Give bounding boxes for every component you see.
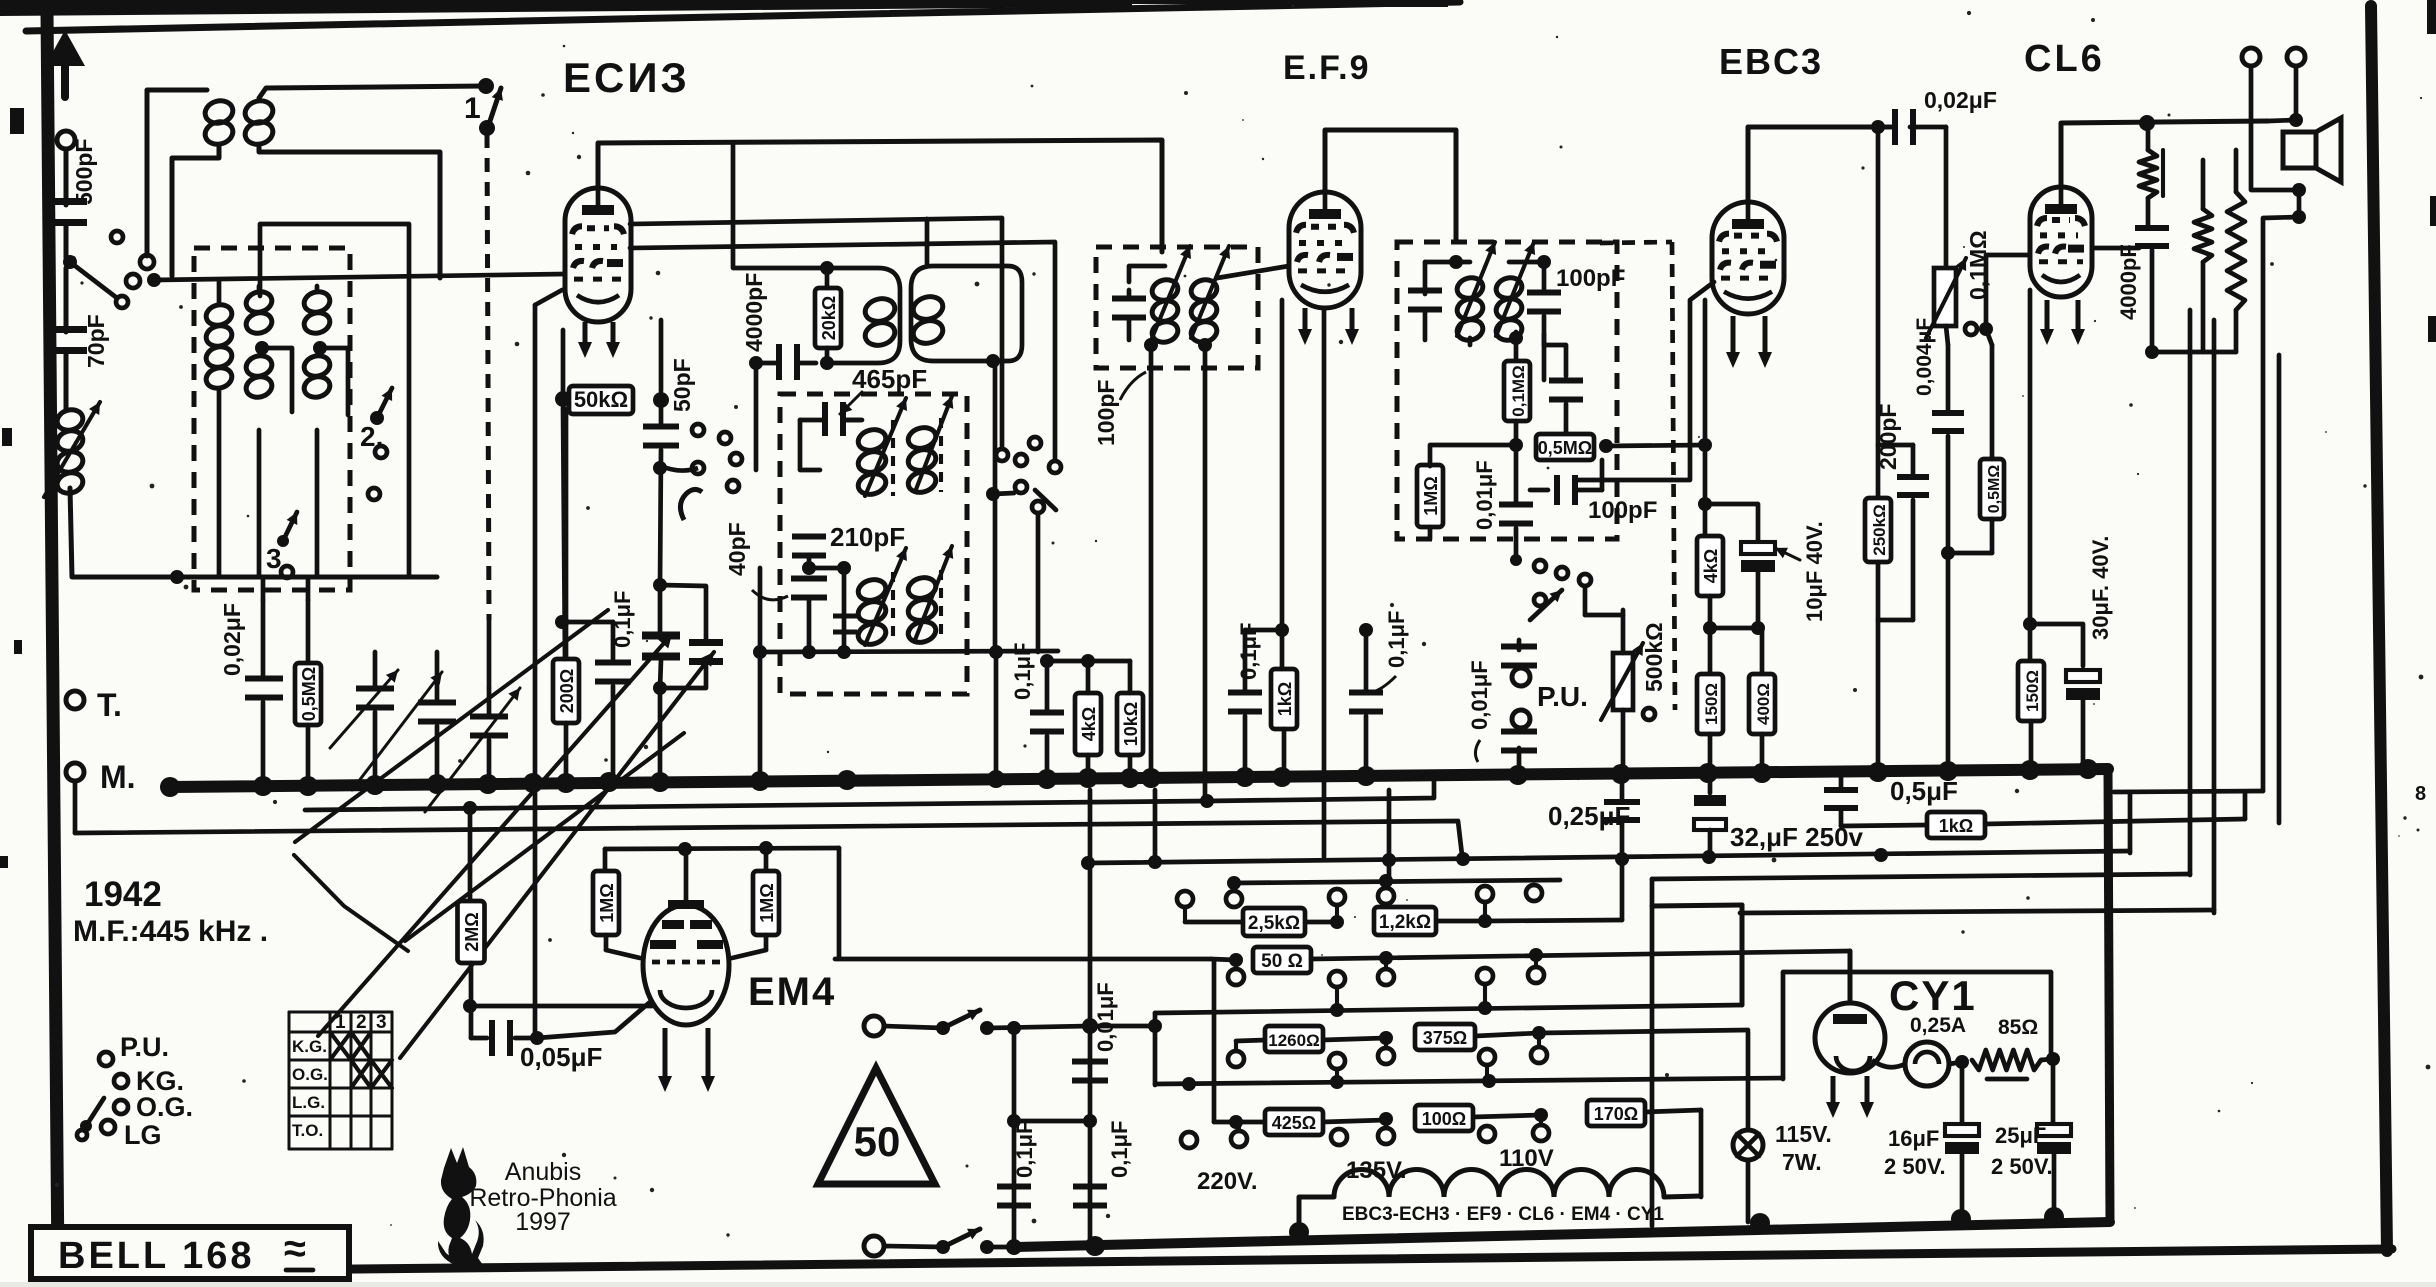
- wire W1: [1081, 848, 2130, 870]
- trimmer cap A: [330, 652, 398, 785]
- wire CL6 plate: [2061, 121, 2268, 187]
- label 200pF: [1875, 404, 1901, 470]
- label 1942: [84, 875, 162, 914]
- node diode load: [1509, 421, 1523, 452]
- dashed box band coils: [194, 248, 350, 590]
- svg-text:L.G.: L.G.: [292, 1093, 325, 1112]
- resistor 1Mohm det: [1417, 445, 1516, 539]
- label heater chain: [1342, 1204, 1664, 1225]
- resistor 1,2kohm: [1374, 907, 1492, 935]
- resistor 1kohm out: [1927, 812, 1985, 838]
- node antenna switch: [63, 255, 77, 269]
- wire grid line long: [154, 274, 565, 280]
- label 0,1uF mains1: [1012, 1121, 1037, 1178]
- wire 465 loop: [800, 420, 820, 470]
- svg-text:0,01μF: 0,01μF: [1093, 982, 1118, 1052]
- capacitor 25uF: [2037, 1059, 2071, 1216]
- svg-text:P.U.: P.U.: [120, 1032, 169, 1062]
- tube EF9: [1289, 192, 1361, 308]
- capacitor 0,01uF mains: [1007, 1059, 1108, 1129]
- CY1 arrows: [1826, 1076, 1874, 1118]
- wire subbus y878: [1652, 874, 2190, 879]
- label 500kohm: [1641, 622, 1667, 692]
- svg-text:Anubis: Anubis: [505, 1158, 581, 1186]
- wire CL6 cathode: [2023, 290, 2037, 661]
- wire 1652 down: [1650, 879, 1655, 1226]
- capacitor 16uF: [1945, 1062, 1979, 1218]
- label EM4: [748, 970, 836, 1014]
- label 135V: [1346, 1157, 1407, 1184]
- gang arrow D4: [400, 652, 714, 1058]
- node 4000pF left: [749, 356, 763, 370]
- svg-text:0,05μF: 0,05μF: [520, 1042, 602, 1072]
- tuning gang cap 1: [642, 578, 680, 781]
- antenna terminal: [57, 131, 75, 149]
- selector stems row3: [1189, 1033, 1539, 1100]
- wire ECH3 side wire b: [630, 143, 1061, 473]
- scan edge artifacts right: [2415, 0, 2436, 805]
- power box right edge (thick): [2108, 769, 2110, 1222]
- tap band2: [262, 348, 292, 412]
- svg-text:425Ω: 425Ω: [1272, 1113, 1316, 1133]
- switch wave lever: [77, 1098, 104, 1140]
- EM4 arrows: [658, 1028, 715, 1092]
- wire coil primary bottom: [172, 146, 219, 276]
- wire under-bus line A: [305, 774, 1434, 810]
- capacitor 0,1uF screen: [1030, 661, 1064, 779]
- wire mains stub: [1090, 1013, 1162, 1085]
- wire mains vert 2: [1082, 790, 1098, 1247]
- tube ECH3: [565, 188, 631, 322]
- wire EF9 screen down: [1322, 308, 1327, 857]
- svg-text:0,1μF: 0,1μF: [1384, 611, 1409, 668]
- wire C500 down: [64, 226, 69, 258]
- svg-text:0,02μF: 0,02μF: [219, 603, 245, 676]
- label Retro-Phonia: [469, 1184, 616, 1212]
- svg-text:0,1μF: 0,1μF: [1010, 643, 1035, 700]
- label 100pF det top: [1556, 265, 1625, 292]
- fuse lamp 0,25A: [1905, 1042, 1949, 1086]
- wire IF2 top: [1129, 266, 1165, 282]
- capacitor 100pF det2: [1544, 334, 1583, 403]
- tuning gang cap 2: [660, 585, 723, 688]
- IF2 coil 2: [1189, 277, 1219, 345]
- wire out sec to sub-bus: [2190, 300, 2203, 875]
- IF3 coil 1: [1455, 275, 1485, 343]
- wire IF2 left down: [1149, 345, 1154, 778]
- wire IF1 sec down: [993, 361, 998, 652]
- switch 1 node a: [478, 78, 494, 94]
- terminal M: [66, 759, 136, 795]
- border right: [2371, 6, 2387, 1251]
- svg-text:CY1: CY1: [1889, 972, 1977, 1019]
- wire coil to bottom: [70, 488, 437, 577]
- resistor 4kohm EBC3: [1697, 536, 1723, 596]
- label 115V 7W: [1775, 1121, 1832, 1175]
- switch table: [289, 1012, 392, 1149]
- wire ECH3 grid2: [659, 320, 664, 391]
- switch 3 lever: [277, 512, 297, 578]
- border top outer bar: [0, 0, 1132, 16]
- resistor 150ohm CL6: [2018, 661, 2044, 768]
- label switch 1: [464, 92, 481, 125]
- capacitor 0,1uF mains2: [1073, 1184, 1107, 1209]
- svg-text:P.U.: P.U.: [1537, 681, 1588, 712]
- wire vert x1214: [1212, 960, 1217, 1122]
- resistor 425ohm: [1265, 1109, 1393, 1135]
- svg-text:1,2kΩ: 1,2kΩ: [1379, 912, 1431, 933]
- svg-text:1kΩ: 1kΩ: [1939, 816, 1973, 836]
- wire W6: [1155, 1074, 1783, 1091]
- svg-text:1MΩ: 1MΩ: [1421, 476, 1441, 515]
- svg-text:0,1μF: 0,1μF: [1012, 1121, 1037, 1178]
- label switch 2: [360, 421, 383, 452]
- wire mains vert 1: [1006, 1021, 1022, 1255]
- capacitor 0,004uF: [1932, 326, 1964, 769]
- svg-text:EBC3-ECH3 · EF9 · CL6 · EM4 ·: EBC3-ECH3 · EF9 · CL6 · EM4 · CY1: [1342, 1204, 1664, 1225]
- svg-text:2MΩ: 2MΩ: [462, 912, 482, 951]
- label 0,1uF EF9 k: [1236, 623, 1261, 680]
- svg-text:EBC3: EBC3: [1719, 41, 1823, 82]
- svg-text:0,004μF: 0,004μF: [1913, 318, 1936, 396]
- svg-text:50: 50: [854, 1118, 901, 1165]
- capacitor 210pF: [792, 534, 826, 569]
- wire 250k feed: [1876, 127, 1881, 497]
- svg-text:20kΩ: 20kΩ: [819, 296, 839, 340]
- label 465pF: [840, 364, 927, 414]
- trimmer circles right: [986, 437, 1056, 652]
- label 0,02uF: [1924, 87, 1997, 113]
- label 85ohm: [1998, 1016, 2038, 1039]
- resistor 400ohm: [1749, 628, 1775, 772]
- svg-text:0,1μF: 0,1μF: [1107, 1121, 1132, 1178]
- wire speaker terminal a: [2251, 66, 2306, 197]
- chain3 wire: [1236, 1030, 1748, 1041]
- resistor 200ohm: [553, 409, 579, 783]
- capacitor 32uF: [1694, 773, 1726, 856]
- wire EM4 right down: [837, 848, 842, 958]
- label 0,5uF: [1890, 776, 1958, 806]
- switch antenna lever: [70, 231, 128, 308]
- speaker: [2283, 118, 2341, 182]
- svg-text:100pF: 100pF: [1093, 380, 1119, 446]
- wire antenna to C500: [64, 149, 69, 205]
- osc coil 1: [856, 420, 893, 497]
- wire top left horiz: [147, 90, 207, 256]
- svg-text:465pF: 465pF: [852, 364, 927, 394]
- wire screen feed top: [1040, 654, 1130, 668]
- EF9 cathode arrows: [1298, 308, 1359, 345]
- capacitor PU bottom: [1501, 729, 1537, 776]
- wire out sec b: [2212, 320, 2217, 913]
- svg-text:≈: ≈: [284, 1227, 306, 1271]
- bus junction dots: [160, 759, 2098, 797]
- terminal circle left b: [126, 274, 140, 288]
- selector circles row3: [1228, 1047, 1547, 1069]
- node plate RC: [1871, 120, 1885, 134]
- wire subbus y915: [1740, 910, 2214, 913]
- chassis bus (thick): [170, 769, 2108, 787]
- capacitor IF3 primary: [1408, 262, 1442, 340]
- resistor 0,1Mohm det: [1504, 361, 1530, 421]
- terminal PU left: [99, 1032, 169, 1066]
- svg-text:0,25μF: 0,25μF: [1548, 801, 1630, 831]
- wire EM4 top: [605, 841, 839, 856]
- capacitor 465pF: [800, 402, 862, 436]
- chain2 right: [1311, 948, 1850, 965]
- label Anubis: [505, 1158, 581, 1186]
- label 210pF: [830, 522, 905, 552]
- svg-text:210pF: 210pF: [830, 522, 905, 552]
- label 0,01uF PU: [1467, 660, 1492, 762]
- coil antenna primary: [203, 98, 236, 147]
- resistor 50kohm: [555, 330, 669, 414]
- wire coil band2: [257, 286, 262, 577]
- trimmer cap B: [352, 652, 456, 790]
- mains switch bottom: [884, 1229, 1020, 1254]
- wire CL6 screen: [2092, 246, 2139, 251]
- svg-text:200Ω: 200Ω: [557, 669, 577, 713]
- capacitor 4000pF out: [2135, 225, 2169, 359]
- tube CY1: [1815, 1003, 1885, 1073]
- svg-text:4kΩ: 4kΩ: [1079, 707, 1099, 741]
- label 0,1uF screen: [1010, 643, 1035, 700]
- wire C70 to coil: [64, 354, 69, 410]
- resistor 0,5Mohm left: [295, 600, 321, 786]
- terminal KG: [114, 1066, 184, 1096]
- svg-text:10μF 40V.: 10μF 40V.: [1802, 521, 1827, 622]
- border top inner line: [26, 2, 1460, 31]
- svg-text:4000pF: 4000pF: [2116, 244, 2141, 320]
- coil band 2 lower: [244, 353, 274, 400]
- label 0,004uF: [1913, 318, 1936, 396]
- label CL6: [2024, 38, 2105, 80]
- tuning frame closing edge: [294, 855, 408, 951]
- svg-text:0,1μF: 0,1μF: [610, 591, 635, 648]
- resistor 4kohm: [1075, 661, 1101, 778]
- coil band 2 upper: [244, 289, 274, 336]
- resistor 250kohm: [1865, 498, 1891, 770]
- label 50pF: [669, 358, 695, 412]
- svg-text:0,5MΩ: 0,5MΩ: [1538, 438, 1592, 458]
- wire coil secondary top: [259, 86, 485, 98]
- capacitor 0,01uF det: [1499, 445, 1533, 560]
- wire under-bus line B: [75, 821, 1462, 855]
- svg-text:100pF: 100pF: [1588, 497, 1657, 524]
- selector circles row2: [1228, 967, 1544, 987]
- svg-text:500kΩ: 500kΩ: [1641, 622, 1667, 692]
- wire 4000 node down: [754, 363, 759, 470]
- svg-text:M.: M.: [100, 759, 136, 795]
- wire osc bottom: [753, 645, 1058, 659]
- osc coil 3: [856, 572, 893, 647]
- label 0,25A: [1910, 1014, 1966, 1037]
- wire speaker terminal b: [2268, 66, 2303, 127]
- svg-text:2 50V.: 2 50V.: [1884, 1154, 1946, 1179]
- svg-text:O.G.: O.G.: [292, 1065, 328, 1084]
- resistor 100ohm: [1415, 1105, 1548, 1131]
- label 0,1Mohm: [1965, 230, 1991, 300]
- wire PU lever: [1583, 586, 1588, 615]
- svg-text:1: 1: [464, 92, 481, 125]
- antenna symbol: [45, 30, 85, 97]
- svg-text:1kΩ: 1kΩ: [1275, 682, 1295, 716]
- label 0,1uF mains2: [1107, 1121, 1132, 1178]
- capacitor PU top: [1501, 640, 1537, 669]
- capacitor 50pF: [643, 408, 679, 585]
- svg-text:1997: 1997: [515, 1208, 571, 1236]
- label MF445: [73, 915, 268, 948]
- wire EBC3 cathode: [1698, 300, 1712, 535]
- selector stems row1: [1185, 880, 1534, 921]
- switch 1 node b: [479, 120, 495, 136]
- wire IF2 right down: [1203, 345, 1208, 798]
- svg-text:16μF: 16μF: [1888, 1126, 1939, 1151]
- selector stems row4: [1239, 1115, 1541, 1131]
- terminal OG: [114, 1092, 193, 1122]
- wire y577 to components: [263, 577, 308, 600]
- svg-text:200pF: 200pF: [1875, 404, 1901, 470]
- svg-text:E.F.9: E.F.9: [1283, 49, 1370, 87]
- capacitor 70pF: [47, 326, 87, 354]
- wire CY1 cathode: [1872, 1060, 1905, 1067]
- wire bus to W2 feed: [1389, 790, 1463, 881]
- EBC3 cathode arrows: [1726, 316, 1772, 368]
- tap band3: [320, 348, 348, 415]
- resistor 0,5Mohm CL6: [1948, 329, 2004, 553]
- node 85 left: [1949, 1055, 1969, 1069]
- svg-text:T.: T.: [97, 687, 122, 723]
- svg-text:EM4: EM4: [748, 970, 836, 1014]
- wire x536 vertical: [535, 290, 562, 1038]
- wire osc feedback: [260, 224, 409, 577]
- svg-text:250kΩ: 250kΩ: [1870, 504, 1889, 555]
- switch 1 lever: [489, 88, 503, 124]
- svg-text:4000pF: 4000pF: [741, 273, 767, 352]
- coil antenna secondary: [243, 98, 276, 147]
- capacitor 0,1uF EF9 g2: [1324, 623, 1383, 776]
- output transformer winding b: [2227, 150, 2245, 352]
- variable coil antenna: [44, 402, 100, 497]
- trimmer arrow osc1: [865, 398, 907, 496]
- border bottom: [49, 1249, 2392, 1272]
- terminal PU 1: [1512, 668, 1530, 686]
- wire 50k left down: [563, 408, 565, 659]
- node speaker return: [2263, 190, 2306, 791]
- anubis fox: [438, 1147, 484, 1265]
- svg-text:0,01μF: 0,01μF: [1472, 460, 1497, 530]
- label 0,25uF: [1548, 801, 1630, 831]
- trimmer arrow IF2a: [1152, 246, 1191, 338]
- node 85 right: [2041, 1052, 2060, 1066]
- label 0,01uF mains: [1093, 982, 1118, 1052]
- dashed shield EBC3: [1600, 242, 1675, 710]
- capacitor 0,1uF cathode: [555, 615, 631, 781]
- svg-text:M.F.:445 kHz .: M.F.:445 kHz .: [73, 915, 268, 948]
- IF1 secondary coil: [911, 293, 946, 346]
- capacitor 0,1uF mains1: [997, 1184, 1031, 1209]
- potentiometer 500kohm: [1601, 610, 1655, 773]
- wire EF9 plate: [1325, 130, 1456, 242]
- capacitor 100pF det top: [1509, 255, 1561, 334]
- svg-text:1MΩ: 1MΩ: [597, 883, 617, 922]
- wire voice coil return: [2236, 352, 2279, 823]
- capacitor IF2: [1112, 290, 1146, 340]
- resistor 0,5Mohm det: [1536, 434, 1613, 460]
- top edge mark: [1330, 0, 1448, 7]
- choke primary: [2139, 123, 2163, 226]
- svg-text:50 Ω: 50 Ω: [1261, 951, 1303, 972]
- terminal T: [66, 687, 122, 723]
- label 70pF: [83, 314, 109, 368]
- wire subbus 32uF link: [2128, 792, 2133, 853]
- node line A: [1200, 794, 1214, 808]
- label EBC3: [1719, 41, 1823, 82]
- trimmer cap C: [425, 688, 520, 812]
- svg-text:85Ω: 85Ω: [1998, 1016, 2038, 1039]
- wire W2: [1227, 874, 1560, 890]
- output transformer winding a: [2194, 160, 2212, 352]
- capacitor 500pF: [47, 198, 87, 226]
- IF3 coil 2: [1494, 275, 1524, 343]
- node grid line: [147, 273, 161, 287]
- svg-text:375Ω: 375Ω: [1423, 1028, 1467, 1048]
- wire ECH3 side wire a: [630, 218, 1008, 461]
- node coil band2 tap: [255, 341, 269, 355]
- wire to C70: [64, 268, 69, 332]
- wire PU to pot: [1585, 613, 1623, 618]
- svg-text:1MΩ: 1MΩ: [757, 883, 777, 922]
- wire EM4 grid: [470, 1004, 652, 1009]
- wire diode return: [1606, 438, 1712, 452]
- osc coil 2: [906, 418, 941, 495]
- capacitor 30uF 40V: [2030, 624, 2100, 766]
- IF2 coil 1: [1150, 277, 1180, 345]
- resistor 85ohm: [1972, 1050, 2041, 1079]
- svg-text:100Ω: 100Ω: [1422, 1109, 1466, 1129]
- border left: [47, 12, 58, 1270]
- wire subbus y905: [1652, 905, 1742, 1005]
- svg-text:0,1MΩ: 0,1MΩ: [1509, 365, 1528, 416]
- node IF2 bottoms: [1144, 338, 1212, 352]
- wire osc right down: [987, 652, 1005, 788]
- selector circles row4: [1181, 1125, 1549, 1148]
- svg-text:2 50V.: 2 50V.: [1991, 1154, 2053, 1179]
- trimmer arrow osc4: [915, 546, 953, 640]
- chain1 wire: [1185, 856, 1622, 922]
- node IF3 sec bottom: [1470, 331, 1523, 361]
- wire CY1 plate feed: [1848, 951, 1853, 1002]
- trimmer arrow osc2: [915, 396, 953, 492]
- resistor 1Mohm EM4 a: [593, 849, 640, 958]
- svg-text:400Ω: 400Ω: [1754, 683, 1773, 725]
- svg-text:1260Ω: 1260Ω: [1268, 1031, 1319, 1050]
- capacitor 0,02uF: [245, 600, 283, 786]
- svg-text:0,5MΩ: 0,5MΩ: [299, 667, 319, 721]
- resistor 170ohm: [1587, 1100, 1645, 1126]
- resistor 1Mohm EM4 b: [732, 848, 779, 958]
- power bus dots: [1085, 1207, 2064, 1256]
- gang arrow D3: [318, 634, 672, 1036]
- label 1997: [515, 1208, 571, 1236]
- tube EM4: [643, 854, 729, 1025]
- selector stems row2: [1236, 955, 1536, 1005]
- mains terminal bottom: [864, 1236, 884, 1256]
- CL6 cathode arrows: [2040, 300, 2085, 345]
- resistor 2,5kohm: [1243, 908, 1344, 936]
- label 10uF 40V: [1775, 521, 1827, 622]
- resistor 2Mohm: [458, 801, 485, 1038]
